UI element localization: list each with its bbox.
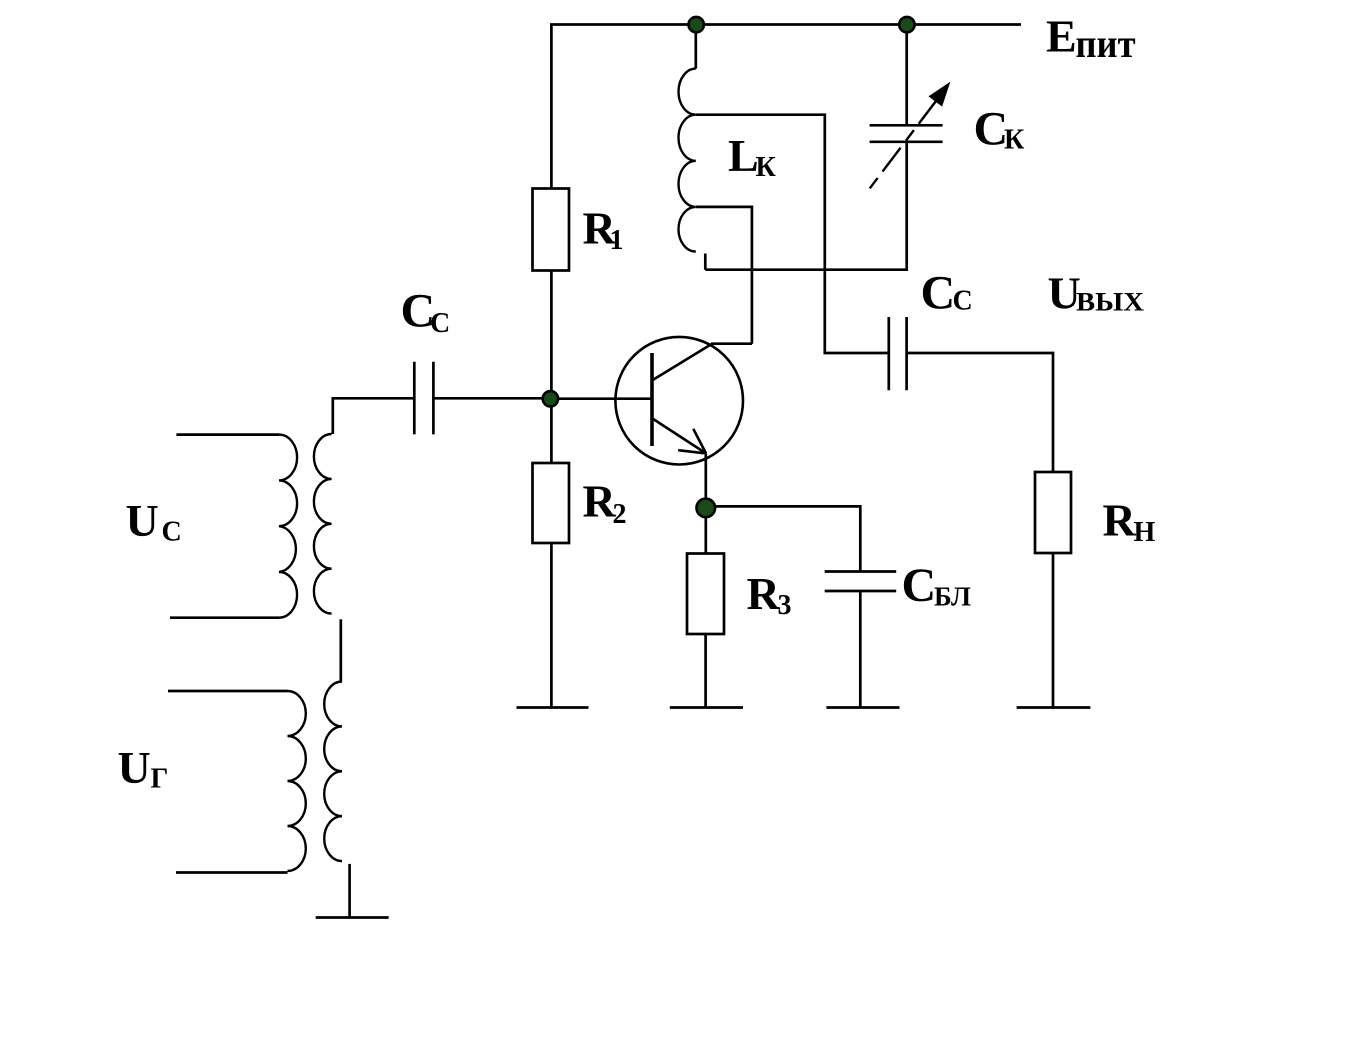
svg-text:С: С: [902, 559, 937, 612]
svg-text:пит: пит: [1076, 21, 1136, 66]
svg-text:R: R: [747, 568, 781, 619]
svg-text:Г: Г: [151, 764, 169, 795]
svg-text:L: L: [728, 130, 759, 181]
svg-text:C: C: [974, 102, 1009, 155]
svg-text:С: С: [430, 308, 450, 339]
svg-text:1: 1: [610, 225, 624, 256]
svg-text:C: C: [921, 266, 956, 319]
svg-text:R: R: [1103, 495, 1137, 546]
svg-text:ВЫХ: ВЫХ: [1076, 288, 1144, 317]
svg-text:Е: Е: [1046, 11, 1077, 62]
svg-text:R: R: [583, 476, 617, 527]
svg-text:3: 3: [778, 590, 792, 621]
svg-text:2: 2: [613, 499, 627, 530]
svg-text:С: С: [162, 517, 182, 548]
svg-text:БЛ: БЛ: [934, 581, 971, 612]
svg-text:С: С: [953, 286, 973, 317]
svg-text:U: U: [126, 495, 159, 546]
svg-text:К: К: [756, 152, 777, 183]
svg-text:U: U: [118, 742, 151, 793]
svg-text:К: К: [1004, 124, 1025, 155]
svg-text:Н: Н: [1134, 517, 1156, 548]
